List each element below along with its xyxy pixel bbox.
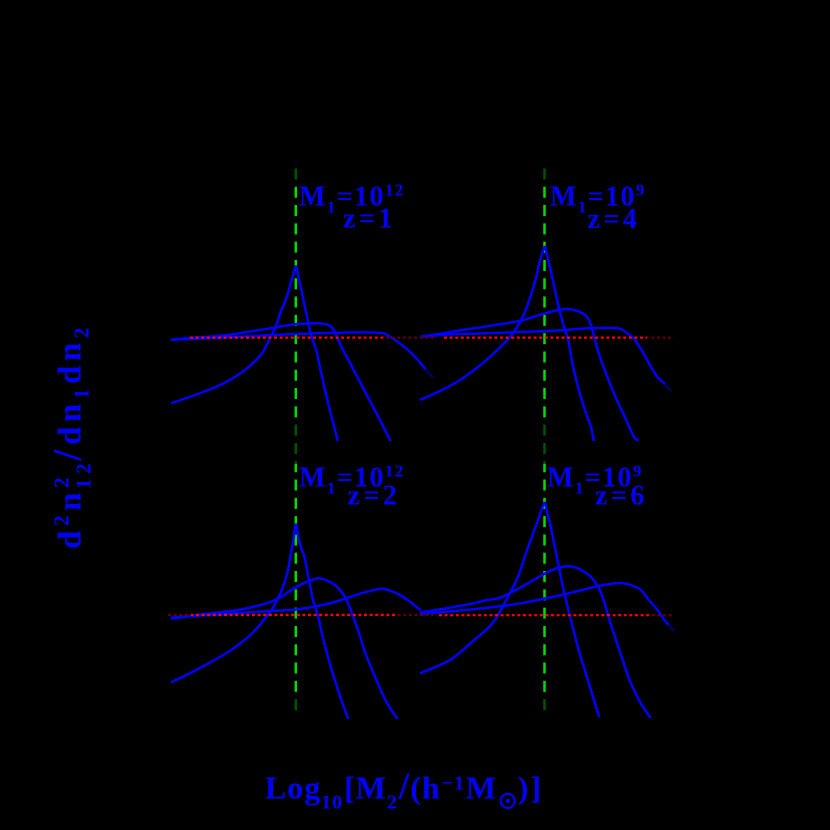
blue broad flat curve, bottom-left panel xyxy=(172,589,420,618)
blue spiked curve, top-left panel xyxy=(172,267,338,441)
green dashed vertical line at M1, bottom-right panel xyxy=(542,443,546,717)
blue curve fade-out tail, top-left panel xyxy=(425,369,433,379)
svg-text:)]: )] xyxy=(518,770,543,806)
green dashed vertical line at M1, top-left panel xyxy=(294,162,298,440)
green dashed vertical line at M1, bottom-left panel xyxy=(294,443,298,717)
blue middle hump curve, top-left panel xyxy=(172,323,390,440)
blue curve fade-out tail, top-right panel xyxy=(664,383,671,391)
svg-text:z=6: z=6 xyxy=(595,481,648,512)
blue middle hump curve, bottom-right panel xyxy=(421,566,650,717)
blue broad flat curve, bottom-right panel xyxy=(421,583,668,624)
red dotted unity line, bottom-right panel xyxy=(439,614,673,616)
blue spiked curve, top-right panel xyxy=(421,247,594,440)
blue curve fade-out tail, bottom-right panel xyxy=(668,624,674,631)
blue broad flat curve, top-left panel xyxy=(172,332,425,368)
blue spiked curve, bottom-right panel xyxy=(421,503,599,716)
sun symbol circle-dot subscript xyxy=(501,794,515,808)
red dotted unity line, top-right panel xyxy=(444,337,674,339)
green dashed vertical line at M1, top-right panel xyxy=(542,162,546,440)
red dotted unity line, top-left panel xyxy=(190,337,437,339)
y-axis title: d^2 n^2_12 / dn_1 dn_2 xyxy=(45,323,96,549)
svg-text:z=4: z=4 xyxy=(588,204,641,235)
blue middle hump curve, top-right panel xyxy=(421,309,638,440)
blue broad flat curve, top-right panel xyxy=(421,328,664,383)
blue curve fade-out tail, bottom-left panel xyxy=(420,610,427,615)
x-axis title: Log10 [ M2 / ( h^-1 Msun ) ] xyxy=(265,766,543,814)
svg-text:z=2: z=2 xyxy=(348,481,401,512)
svg-text:z=1: z=1 xyxy=(343,204,396,235)
blue middle hump curve, bottom-left panel xyxy=(172,578,397,718)
blue spiked curve, bottom-left panel xyxy=(172,524,348,718)
red dotted unity line, bottom-left panel xyxy=(168,614,433,616)
